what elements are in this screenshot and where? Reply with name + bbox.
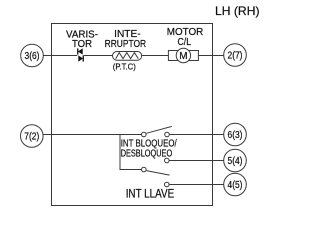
contact left (pole) — [142, 132, 147, 137]
svg-text:C/L: C/L — [178, 36, 192, 48]
connector outline box — [52, 24, 213, 206]
terminal 3(6) — [21, 44, 44, 67]
svg-text:3(6): 3(6) — [25, 51, 40, 62]
wire switch to terminal 6(3) — [170, 134, 224, 136]
svg-text:7(2): 7(2) — [24, 132, 39, 143]
wire branch vertical — [119, 135, 121, 170]
svg-text:INT LLAVE: INT LLAVE — [126, 189, 175, 201]
varistor V1 — [77, 48, 84, 61]
terminal 4(5) — [224, 173, 247, 196]
svg-text:2(7): 2(7) — [228, 51, 243, 62]
svg-text:TOR: TOR — [72, 38, 92, 50]
interruptor PTC (stadium with zigzag) — [113, 52, 142, 61]
wire desbloqueo contact to terminal 5(4) — [169, 160, 224, 162]
wire llave contact to terminal 4(5) — [169, 184, 224, 186]
contact desbloqueo to 5(4) — [165, 158, 170, 163]
switch blade — [146, 171, 169, 176]
terminal 5(4) — [224, 149, 247, 172]
contact right to 6(3) — [165, 132, 170, 137]
motor C/L M1 — [168, 48, 198, 62]
svg-text:LH (RH): LH (RH) — [215, 4, 260, 18]
switch blade — [146, 126, 172, 133]
terminal 7(2) — [21, 125, 44, 148]
svg-text:RRUPTOR: RRUPTOR — [105, 38, 147, 50]
wire varistor to interruptor — [84, 55, 113, 57]
wire row B from terminal 7(2) to switch — [43, 134, 141, 136]
wire interruptor to motor — [142, 55, 169, 57]
switch INT BLOQUEO/DESBLOQUEO contacts — [142, 126, 172, 162]
svg-text:4(5): 4(5) — [228, 180, 243, 191]
wire motor to terminal 2(7) — [198, 55, 223, 57]
svg-text:DESBLOQUEO: DESBLOQUEO — [121, 148, 173, 159]
svg-text:M: M — [179, 51, 187, 62]
svg-text:(P.T.C): (P.T.C) — [113, 61, 136, 71]
wire row A left — [43, 55, 77, 57]
contact right to 4(5) — [165, 182, 170, 187]
svg-text:6(3): 6(3) — [228, 130, 243, 141]
switch INT LLAVE contacts — [142, 167, 170, 187]
terminal 6(3) — [224, 123, 247, 146]
wire branch horizontal to llave switch — [120, 169, 142, 171]
svg-text:5(4): 5(4) — [228, 156, 243, 167]
terminal 2(7) — [224, 44, 247, 67]
contact left (pole) — [142, 167, 147, 172]
